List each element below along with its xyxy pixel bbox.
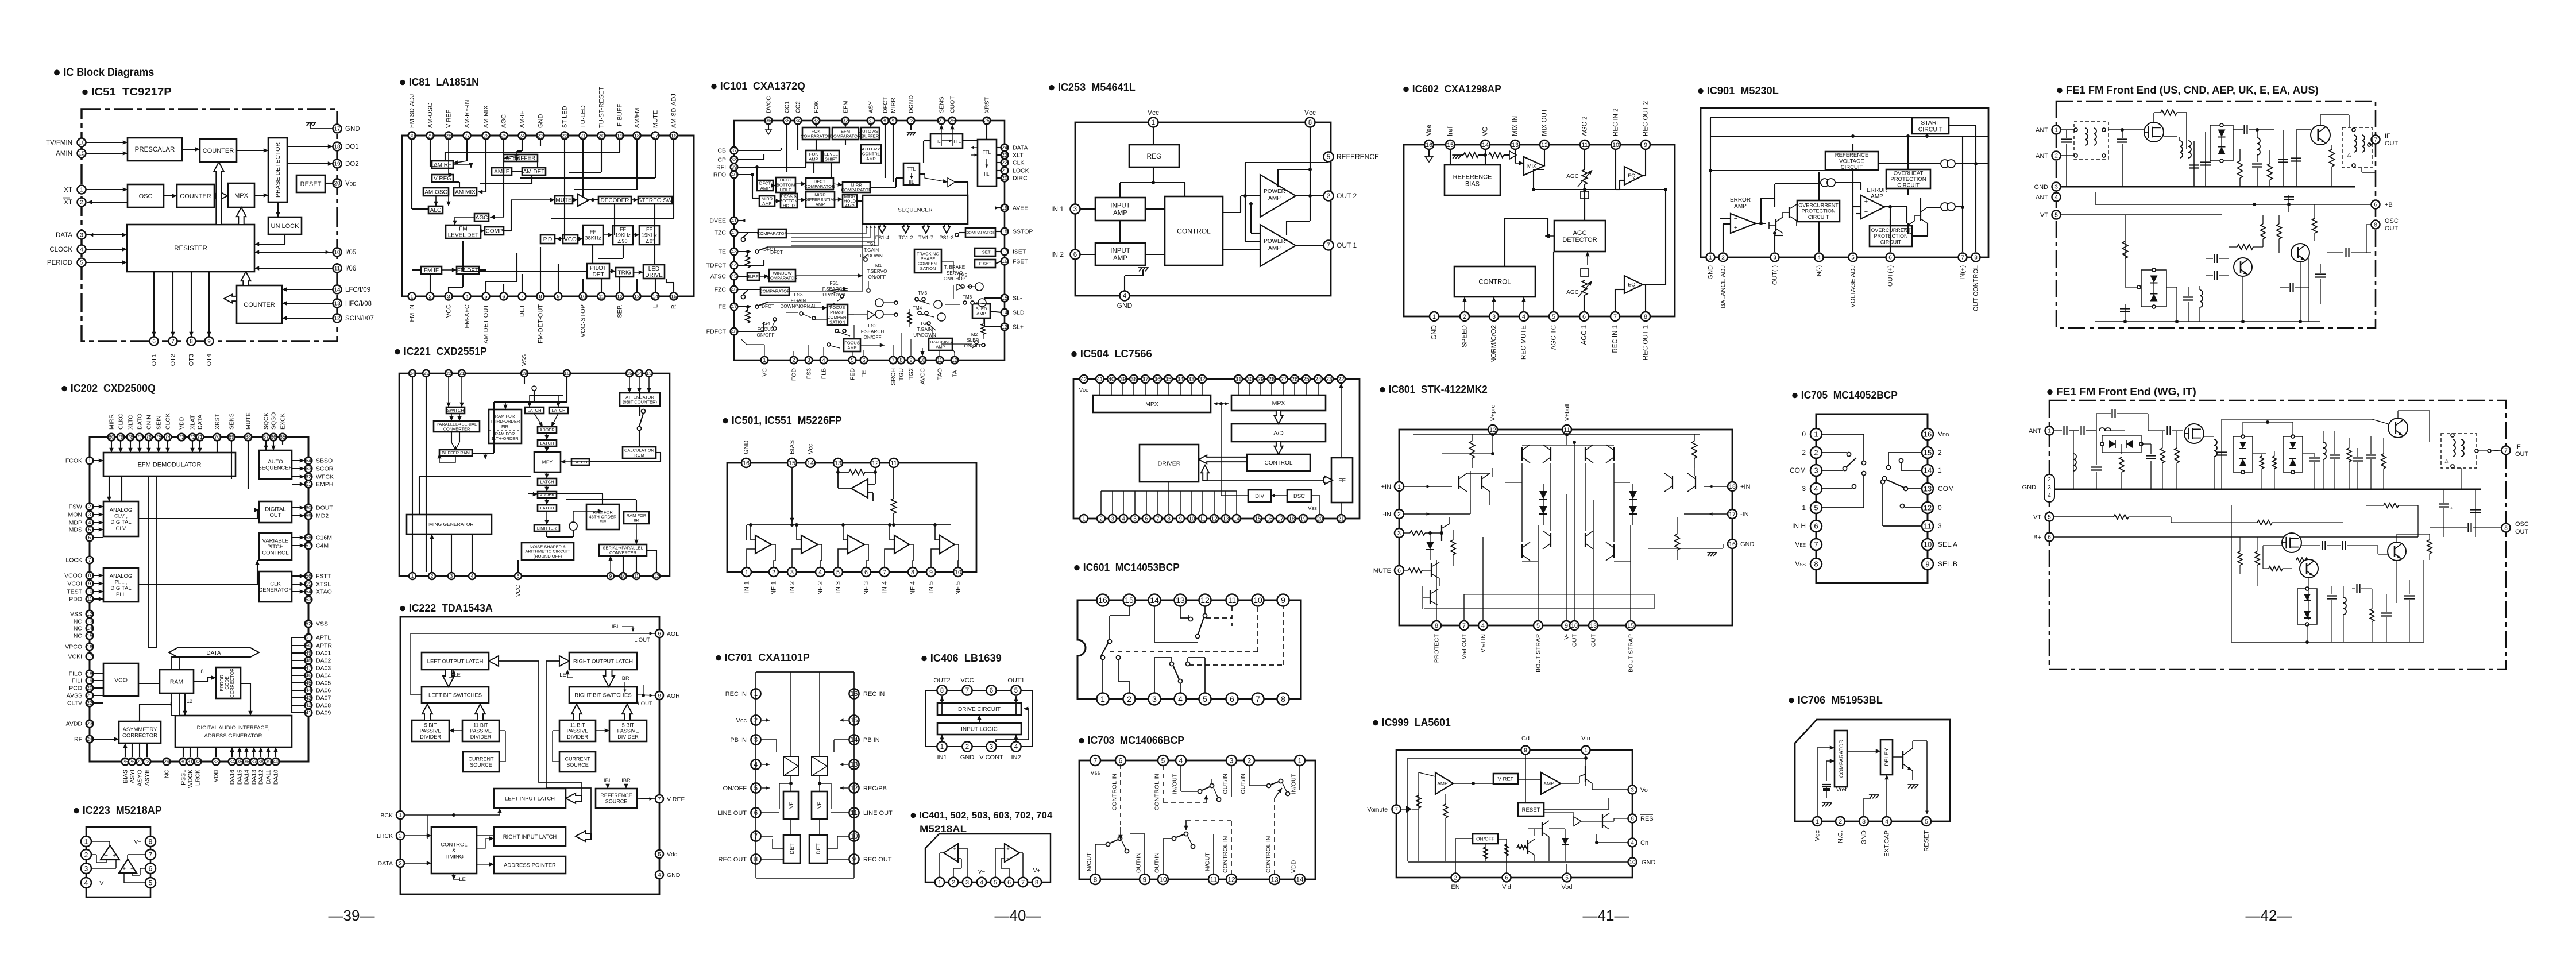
pin 12 TA- [951,357,959,377]
svg-text:1: 1 [1814,430,1818,439]
svg-text:CONTROL: CONTROL [441,841,467,848]
block AGC DETECTOR [1554,221,1605,252]
block COUNTER top [200,139,237,162]
pin 2 OUT 2 [1324,191,1357,201]
pin 11 [1204,852,1219,884]
svg-text:IC222 TDA1543A: IC222 TDA1543A [409,602,493,614]
block STEREO SW [638,196,673,204]
svg-text:DA07: DA07 [316,695,331,702]
svg-text:FS3: FS3 [794,292,802,297]
svg-text:DRIVE: DRIVE [645,272,663,279]
svg-text:1: 1 [399,812,401,818]
svg-text:ANT: ANT [2036,127,2048,134]
IC901 outer box [1701,108,1988,257]
svg-text:26: 26 [483,133,489,139]
svg-text:18: 18 [334,144,341,150]
svg-text:DA01: DA01 [316,650,331,657]
wire COUNTERbottom left arrow into RESISTER [224,295,237,303]
M5218AL outer box chamfered [925,834,1051,882]
svg-text:GND: GND [345,126,360,133]
svg-text:DA16: DA16 [229,770,235,785]
svg-text:2: 2 [1802,449,1806,457]
wire ASYMMETRY up-right [140,702,175,721]
pin 28 [1268,375,1276,383]
svg-text:3: 3 [80,233,83,239]
svg-text:28: 28 [908,118,914,123]
reset wire [1925,741,1929,814]
svg-text:AMP: AMP [1113,210,1127,217]
wire pin1 FCOK to EFM [93,458,103,462]
svg-text:SEQUENCER: SEQUENCER [898,207,932,213]
svg-text:DET: DET [816,843,822,854]
pin 12 [1199,594,1211,606]
wire INPUT AMP1 to CONTROL [1145,208,1165,210]
svg-text:I/06: I/06 [345,265,356,272]
svg-text:2: 2 [965,744,969,751]
pin 5 [1153,755,1168,810]
pin 35 CC1 [783,101,791,124]
block 5 BIT PASSIVE DIVIDER L [412,720,449,741]
svg-text:IIL: IIL [936,139,941,144]
svg-text:11 BIT: 11 BIT [570,722,585,728]
pin 30 FM-SD-ADJ [408,94,416,140]
pin 2 XT [63,198,86,207]
svg-text:OUT 2: OUT 2 [1337,192,1357,200]
svg-text:58: 58 [306,535,311,540]
svg-text:23: 23 [1002,152,1007,158]
svg-text:INPUT LOGIC: INPUT LOGIC [961,727,998,733]
svg-text:AMP: AMP [866,156,875,161]
pin 55 XTSL [305,581,331,588]
svg-text:IC801 STK-4122MK2: IC801 STK-4122MK2 [1389,384,1488,395]
svg-text:4: 4 [1522,314,1525,320]
svg-text:−: − [1864,208,1868,215]
svg-text:12: 12 [654,573,659,579]
pin 66 SQSO [270,412,277,441]
op-amp AMP left [1435,772,1453,794]
input filter with diodes [2091,409,2156,489]
title IC701 CXA1101P [716,652,810,663]
svg-text:13: 13 [646,370,652,376]
block COMPARATOR [965,228,996,237]
svg-text:SEL.B: SEL.B [1938,560,1957,568]
op-amp POWER AMP 1 [1260,225,1296,266]
svg-text:OSC: OSC [2385,218,2399,225]
pin 5 PERIOD [47,258,86,267]
IC222 outer box [400,617,659,894]
svg-text:IC999 LA5601: IC999 LA5601 [1382,717,1451,728]
hollow arrow RESISTER to MPX [237,207,246,225]
pin 7 V<tspan font-size="8">EE</tspan> [1795,539,1822,550]
svg-text:+: + [1864,198,1868,205]
svg-text:COMPARATOR: COMPARATOR [830,134,861,139]
pin 8 AOR [655,691,680,700]
svg-text:ROM: ROM [634,453,644,458]
svg-text:8: 8 [911,569,914,576]
wires M5218AL [940,848,1023,878]
svg-text:10: 10 [1629,860,1636,866]
pin 7 [1090,755,1100,776]
pin 16 TV/FMIN [46,138,86,147]
svg-text:ADDER: ADDER [539,427,555,432]
pin 6 [1226,693,1238,705]
svg-text:LOCK: LOCK [65,557,82,564]
svg-text:70: 70 [214,434,220,440]
svg-text:59: 59 [306,513,311,519]
svg-text:HOLD: HOLD [783,203,795,208]
svg-text:30: 30 [180,759,186,764]
wire REC IN 1 to EQ bottom [1615,289,1624,312]
head symbol left [783,756,798,776]
svg-text:11: 11 [937,357,942,363]
current source left [1821,179,1835,187]
wire REG down [1120,167,1185,198]
svg-text:REG: REG [1146,152,1161,160]
pin 10 I/05 [333,248,357,257]
pin 5 AM-DET-OUT [482,293,490,344]
svg-text:IF: IF [2515,443,2521,450]
svg-text:IN H: IN H [1792,522,1806,530]
pin 9 OT4 [205,337,214,366]
svg-text:TZC: TZC [715,230,727,237]
svg-text:∠90’: ∠90’ [617,238,628,244]
svg-text:−: − [105,853,108,859]
svg-text:OUT: OUT [269,512,281,519]
pin 6 AGC 1 [1579,312,1589,345]
wire pin1 edge [0,0,1,1]
svg-text:IC221 CXD2551P: IC221 CXD2551P [404,346,487,357]
IC221 outer box [399,373,670,576]
svg-text:2: 2 [952,879,955,886]
svg-text:37: 37 [1142,377,1149,383]
wire COUNTER to MPX arrowhead [215,192,227,200]
pin 7 VCC [960,677,974,695]
svg-text:ERROR: ERROR [1730,197,1751,203]
wire MIX out to MIX OUT [1544,149,1544,166]
pin 47 DA03 [305,664,331,672]
IC101 outer box [734,121,1005,360]
wire gnd [1125,268,1149,291]
wire pin14 to COUNTER [282,287,333,291]
pin 6 AOL [655,629,679,637]
svg-text:AMP: AMP [760,186,770,191]
svg-text:11: 11 [1228,596,1237,605]
svg-text:LINE OUT: LINE OUT [717,810,747,817]
svg-text:ASYE: ASYE [144,770,150,786]
block MIRR [841,182,872,192]
wire PHASE DET to pin19 [287,161,333,165]
pin 14 [636,370,643,377]
switch labels [757,242,982,349]
pin 15 R [670,293,678,309]
svg-text:46: 46 [731,287,737,292]
svg-text:23: 23 [1326,377,1333,383]
svg-text:SOURCE: SOURCE [566,762,589,768]
pin 6 [500,293,508,300]
svg-text:ADDER: ADDER [539,492,555,497]
svg-text:NF 2: NF 2 [817,581,824,595]
VT wire [2061,214,2222,215]
pin 8 [1277,693,1289,705]
svg-text:3: 3 [1073,206,1077,213]
svg-text:COMP: COMP [486,229,503,235]
wire fb top [1278,168,1312,235]
svg-text:10: 10 [87,589,92,594]
svg-text:NF 1: NF 1 [771,581,778,595]
svg-text:OVERHEAT: OVERHEAT [1894,170,1924,176]
wire OSC pin2 return [87,200,128,204]
pin 5 Vod [1562,874,1573,891]
svg-text:ANT: ANT [2036,194,2048,201]
svg-text:4: 4 [1631,840,1634,847]
block FOK [806,150,821,163]
svg-text:12: 12 [872,460,879,467]
pin 6 IN H [1792,520,1822,532]
svg-text:DA13: DA13 [250,770,257,785]
svg-text:8: 8 [1644,314,1647,320]
svg-text:0: 0 [1802,430,1806,438]
svg-text:16: 16 [1924,430,1932,439]
svg-text:OUT2: OUT2 [933,677,950,684]
svg-text:—42—: —42— [2246,907,2292,924]
block IIL-TTL [930,134,963,148]
svg-text:11: 11 [1581,142,1588,149]
svg-text:A/D: A/D [1273,430,1284,436]
svg-text:RESET: RESET [1924,830,1930,852]
svg-text:CONTROL IN: CONTROL IN [1153,774,1160,810]
pin 11 I/06 [333,264,357,273]
block LEFT BIT SWITCHES [422,687,489,703]
transistor top right [2372,411,2430,438]
op-amp A [101,845,119,860]
svg-text:2: 2 [88,504,91,509]
pin 9 [555,293,562,300]
switch sw2 [1154,606,1232,642]
pin 2 GND [960,741,975,761]
pin 3 [1109,515,1117,523]
pin 40 DA10 [272,758,280,785]
svg-text:CB: CB [717,148,726,154]
svg-text:2: 2 [1938,449,1942,457]
svg-text:Cn: Cn [1640,840,1648,847]
IF transformer dashed box [2342,115,2372,168]
pin 6 IN 2 [1051,250,1080,260]
svg-text:+: + [122,866,126,872]
pin 27 ASYO [136,758,144,786]
svg-text:65: 65 [280,434,285,440]
svg-text:6: 6 [1582,314,1586,320]
svg-text:V+: V+ [1033,868,1041,874]
svg-text:AMIN: AMIN [56,150,72,157]
block LATCH e [538,478,557,485]
wire feedback net [1243,163,1328,241]
svg-text:(9BIT COUNTER): (9BIT COUNTER) [623,399,657,404]
svg-text:SEQUENCER: SEQUENCER [258,465,292,472]
pin 28 ASYE [144,758,151,786]
svg-text:7: 7 [149,851,153,859]
svg-text:38: 38 [731,157,737,163]
pin 13 NC [74,618,93,625]
IC703 outer box [1079,760,1315,879]
svg-text:IC504 LC7566: IC504 LC7566 [1080,348,1152,360]
svg-text:DFCT: DFCT [882,96,889,113]
svg-text:14: 14 [636,370,642,376]
transistor Q2 [2296,115,2349,145]
pin 2 LRCK [377,832,404,840]
pin 6 B+ [2033,533,2053,542]
svg-text:PB IN: PB IN [863,737,880,744]
svg-text:FCOK: FCOK [65,458,82,465]
svg-text:PLL ,: PLL , [115,579,128,586]
block DET left [783,835,800,863]
pin 23 GND [537,114,544,140]
pin 14 NC [74,625,93,632]
svg-text:9: 9 [1925,560,1929,569]
pin 6 [1005,878,1014,887]
svg-text:5: 5 [1203,694,1207,704]
pin 1 ANT [2036,126,2061,134]
svg-text:ASYI: ASYI [129,770,136,783]
pin 13 [833,458,843,467]
block TRACKING [914,249,941,273]
svg-text:Vod: Vod [1562,884,1573,891]
svg-text:IC406 LB1639: IC406 LB1639 [930,652,1002,664]
block ANALOG CLV DIGITAL CLV [103,501,138,536]
svg-text:30: 30 [882,118,888,123]
pin 3 COM [1790,465,1822,476]
label V- [99,880,107,887]
wire PHASE DET down to UN LOCK [276,202,280,217]
svg-text:DOUT: DOUT [316,505,333,512]
svg-text:CONTROL IN: CONTROL IN [1111,774,1118,810]
svg-text:39: 39 [731,164,737,170]
svg-text:19: 19 [87,678,92,683]
svg-text:UP/DOWN: UP/DOWN [913,333,936,338]
svg-text:3: 3 [1802,485,1806,493]
svg-text:PROTECT: PROTECT [1433,633,1440,663]
pin 23 XLT [1001,152,1024,159]
svg-text:CLV: CLV [116,525,126,532]
svg-text:7: 7 [1814,540,1818,549]
svg-text:35: 35 [1165,377,1172,383]
svg-text:F SET: F SET [979,261,991,266]
svg-text:6: 6 [1505,875,1508,882]
block CALCULATION ROM [623,447,656,458]
pin 17 -IN [1728,509,1749,519]
svg-text:SEIN: SEIN [155,415,162,430]
svg-text:19: 19 [1002,205,1007,211]
svg-text:VF: VF [789,802,795,809]
block ASYMMETRY CORRECTOR [119,721,161,743]
block FF 19KHz 90 [613,226,633,245]
pin 64 SBSO [305,457,333,465]
pin 39 DA11 [265,758,272,785]
svg-text:MPY: MPY [542,459,553,465]
svg-text:REC MUTE: REC MUTE [1521,325,1528,360]
svg-text:5: 5 [1536,623,1540,629]
pin 67 SQCK [262,412,270,441]
svg-text:OUT/IN: OUT/IN [1153,852,1160,873]
title IC601 MC14053BCP [1074,562,1180,573]
svg-text:ON/OFF: ON/OFF [868,275,886,280]
pin 15 Iref [1446,126,1455,149]
pin 26 AM-MIX [482,105,490,140]
svg-text:8: 8 [1167,516,1171,523]
svg-text:IF BUFFER: IF BUFFER [506,156,536,162]
pin 4 [81,878,91,888]
svg-text:IN1: IN1 [937,754,947,761]
svg-text:1: 1 [80,187,83,194]
svg-text:25: 25 [1303,377,1310,383]
svg-text:SQCK: SQCK [262,412,269,430]
svg-text:DVCC: DVCC [765,96,772,113]
wire left pins 8-11 to ANALOG PLL [93,573,103,601]
svg-text:5 BIT: 5 BIT [622,722,635,728]
center bus arrows [489,656,591,836]
block SWITCH [446,407,465,414]
block INPUT AMP 1 [1095,198,1145,221]
svg-text:4: 4 [1817,255,1821,261]
svg-text:SSTOP: SSTOP [1013,229,1033,235]
pin 31 [1234,375,1242,383]
pin 3 IN 2 [787,567,797,593]
svg-text:OUT CONTROL: OUT CONTROL [1973,265,1980,311]
svg-text:CLOK: CLOK [164,413,171,430]
svg-text:FSW: FSW [69,504,82,511]
svg-text:LATCH: LATCH [540,505,554,511]
svg-text:TM4: TM4 [913,306,922,311]
wires IC901 [1709,118,1988,252]
block MIRR [805,192,836,207]
wires IC701 [756,672,854,878]
title IC51 TC9217P [82,86,171,98]
svg-text:2: 2 [1454,875,1457,882]
pin 11 [633,573,640,579]
FET 1 [2184,424,2204,443]
svg-text:21: 21 [459,370,465,376]
svg-text:12: 12 [334,316,341,322]
wires IC222 top [411,632,655,697]
svg-text:26: 26 [949,118,955,123]
svg-text:AMP: AMP [1113,255,1127,262]
svg-text:Vdd: Vdd [667,851,678,858]
pin 9 [849,854,891,864]
pin 12 SEP. [616,293,624,318]
block DIGITAL AUDIO INTERFACE ADRESS GENERATOR [175,716,292,747]
svg-text:60: 60 [306,505,311,511]
svg-text:79: 79 [118,434,123,440]
svg-text:4: 4 [84,879,88,887]
svg-text:16: 16 [78,140,85,146]
svg-text:VCOI: VCOI [67,581,82,588]
wires servo rows [768,247,986,350]
pin 22 [1337,375,1345,383]
svg-text:IC601 MC14053BCP: IC601 MC14053BCP [1083,562,1180,573]
pin 10 [1252,594,1264,606]
svg-text:13: 13 [1002,324,1007,330]
pin 1 [1097,693,1109,705]
svg-text:OUT/IN: OUT/IN [1239,774,1246,794]
amp triangle after MUTE [578,194,589,206]
svg-text:73: 73 [179,434,184,440]
block SERIAL-PARALLEL CONVERTER [599,544,647,556]
svg-text:SENS: SENS [938,96,945,113]
pin 6 [86,534,94,542]
svg-text:21: 21 [1338,516,1345,523]
svg-text:−: − [953,856,956,862]
svg-text:TAO: TAO [936,368,943,380]
svg-text:12: 12 [187,698,192,704]
